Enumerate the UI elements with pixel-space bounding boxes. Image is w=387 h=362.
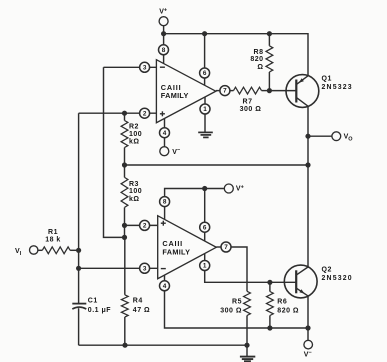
wire bottom ground rail <box>79 344 247 346</box>
ground symbol (bottom rail) <box>240 345 255 361</box>
resistor R3 100 kilohm <box>121 165 142 225</box>
node junction V+ rail left <box>161 31 166 36</box>
node junction Q1 base / R7 / R8 <box>267 88 272 93</box>
node junction feedback tap <box>305 162 310 167</box>
pin 6 of U2 <box>200 222 210 232</box>
wire U1 noninverting input (pin 2) <box>79 112 157 114</box>
wire U1 pin 4 to V- terminal <box>164 118 166 146</box>
node junction output VO tap <box>305 134 310 139</box>
svg-text:2: 2 <box>143 110 147 117</box>
svg-text:kΩ: kΩ <box>129 139 140 146</box>
svg-text:47 Ω: 47 Ω <box>133 307 150 314</box>
op-amp U2 CAIII FAMILY (bottom) <box>158 216 217 279</box>
wire node A down to node A2 <box>78 250 80 268</box>
op-amp U1 CAIII FAMILY (top) <box>156 60 215 123</box>
svg-text:8: 8 <box>163 199 167 206</box>
wire feedback from node C to output column <box>125 164 309 166</box>
svg-text:3: 3 <box>143 265 147 272</box>
wire U2 noninverting input (pin 2) <box>125 224 158 226</box>
svg-text:2: 2 <box>143 223 147 230</box>
pin 4 of U2 <box>160 281 170 291</box>
node junction Q2 emitter / V- rail <box>305 325 310 330</box>
svg-text:R6: R6 <box>277 298 287 305</box>
V- supply terminal of U1 <box>160 147 180 156</box>
svg-text:4: 4 <box>163 283 167 290</box>
wire cross-connect U1 pin3 to node B <box>104 67 125 237</box>
output terminal VO <box>332 132 353 143</box>
ground symbol (U1 pin 1) <box>198 132 213 137</box>
node junction R6 top / base wire <box>267 280 272 285</box>
svg-text:7: 7 <box>223 88 227 95</box>
wire Q1 collector down right column <box>307 106 309 267</box>
wire U2 pin 7 to R5 <box>231 247 247 291</box>
wire top V+ rail to Q1 emitter <box>164 34 308 76</box>
svg-text:18 k: 18 k <box>45 236 61 243</box>
transistor Q2 2N5320 (NPN) <box>284 265 353 298</box>
svg-text:100: 100 <box>129 131 142 138</box>
wire U2 pin 6 to V+ wire <box>204 189 206 242</box>
V+ supply terminal of U2 <box>224 184 243 193</box>
resistor R5 300 ohm <box>220 291 250 345</box>
node junction R6 to V- rail <box>267 325 272 330</box>
svg-text:0.1 μF: 0.1 μF <box>88 307 111 314</box>
svg-text:100: 100 <box>129 188 142 195</box>
svg-text:6: 6 <box>203 70 207 77</box>
V+ supply terminal (top) <box>159 7 168 33</box>
node junction V+ rail R8 tap <box>267 31 272 36</box>
wire U1 pin 1 to ground <box>204 97 206 132</box>
node junction R4 to ground rail <box>122 343 127 348</box>
wire U2 pin 8 riser to V+ wire <box>165 189 225 220</box>
resistor R4 47 ohm <box>121 237 150 345</box>
pin 7 of U1 <box>220 86 230 96</box>
wire U1 pin 8 to V+ rail <box>163 34 165 64</box>
pin 1 of U1 <box>200 104 210 114</box>
wire to VO terminal <box>308 135 332 137</box>
wire U1 pin 6 to V+ rail <box>204 34 206 86</box>
svg-text:820: 820 <box>250 56 263 63</box>
wire U2 output to pin 7 <box>216 246 226 248</box>
node C junction R2/R3/feedback <box>122 162 127 167</box>
input terminal VI <box>15 246 38 257</box>
svg-text:R3: R3 <box>129 181 139 188</box>
svg-text:R4: R4 <box>133 298 143 305</box>
resistor R6 820 ohm <box>267 282 300 328</box>
svg-text:Ω: Ω <box>257 64 263 71</box>
pin 8 of U1 <box>159 45 169 55</box>
node junction R5 to ground rail <box>244 343 249 348</box>
svg-text:300 Ω: 300 Ω <box>240 106 262 113</box>
svg-text:Q1: Q1 <box>322 76 332 83</box>
transistor Q1 2N5323 (PNP) <box>286 75 353 108</box>
wire node B to node B2 <box>124 225 126 237</box>
svg-text:300 Ω: 300 Ω <box>220 307 242 314</box>
node A2 junction C1 / U2 pin3 <box>76 266 81 271</box>
pin 4 of U1 <box>160 128 170 138</box>
wire U2 pin 1 to Q2 base <box>205 254 297 283</box>
svg-text:2N5323: 2N5323 <box>322 84 353 91</box>
svg-text:C1: C1 <box>88 298 98 305</box>
node B junction R3 / U2 pin2 <box>122 223 127 228</box>
pin 2 of U2 <box>140 220 150 230</box>
svg-text:820 Ω: 820 Ω <box>277 307 299 314</box>
pin 6 of U1 <box>200 68 210 78</box>
svg-text:8: 8 <box>162 47 166 54</box>
resistor R7 300 ohm <box>230 87 270 113</box>
V- supply terminal (bottom) <box>304 328 313 358</box>
svg-text:R2: R2 <box>129 124 139 131</box>
svg-text:2N5320: 2N5320 <box>322 275 353 282</box>
resistor R2 100 kilohm <box>121 113 142 165</box>
pin 3 of U2 <box>140 263 150 273</box>
svg-text:R1: R1 <box>48 229 58 236</box>
wire U2 pin 4 to V- rail <box>165 275 309 328</box>
pin 7 of U2 <box>221 242 231 252</box>
node junction U2 V+ wire pin6 tap <box>202 186 207 191</box>
svg-text:FAMILY: FAMILY <box>161 91 189 100</box>
svg-text:R7: R7 <box>243 99 253 106</box>
wire node A riser to U1 pin 2 <box>78 113 80 250</box>
wire Q2 emitter to V- rail <box>307 296 309 328</box>
capacitor C1 0.1 uF <box>72 268 111 345</box>
resistor R1 18 k <box>38 229 79 254</box>
node junction V+ rail pin6 tap <box>202 31 207 36</box>
svg-text:kΩ: kΩ <box>129 196 140 203</box>
pin 3 of U1 <box>140 62 150 72</box>
svg-text:7: 7 <box>224 244 228 251</box>
resistor R8 820 ohm <box>250 34 272 91</box>
wire node A2 to U2 inverting input <box>79 267 158 269</box>
node A junction R1 / riser <box>76 248 81 253</box>
wire U1 inverting input (pin 3) <box>104 66 157 68</box>
svg-text:R8: R8 <box>254 49 264 56</box>
svg-text:FAMILY: FAMILY <box>162 247 190 256</box>
pin 1 of U2 <box>200 261 210 271</box>
svg-text:6: 6 <box>203 224 207 231</box>
wire U1 output to pin 7 <box>216 90 225 92</box>
svg-text:1: 1 <box>203 263 207 270</box>
svg-text:1: 1 <box>203 106 207 113</box>
svg-text:3: 3 <box>143 64 147 71</box>
node junction U1 pin2 / R2 top <box>122 111 127 116</box>
pin 8 of U2 <box>160 197 170 207</box>
node B2 junction cross-connect <box>122 235 127 240</box>
pin 2 of U1 <box>140 108 150 118</box>
svg-text:4: 4 <box>163 130 167 137</box>
svg-text:Q2: Q2 <box>322 267 332 274</box>
wire Q1 base <box>269 90 296 92</box>
svg-text:R5: R5 <box>232 298 242 305</box>
